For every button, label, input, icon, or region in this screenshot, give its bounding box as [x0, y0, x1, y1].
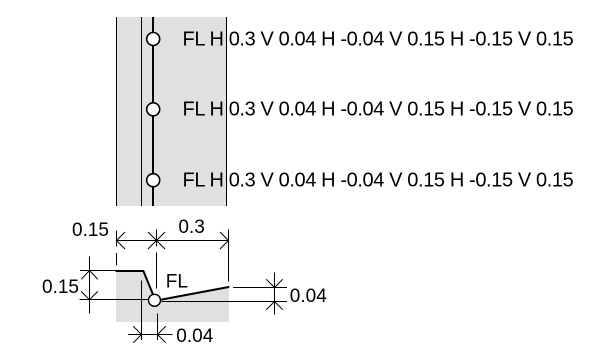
svg-text:0.3: 0.3: [178, 217, 204, 238]
svg-text:FL H 0.3 V 0.04 H -0.04 V 0.15: FL H 0.3 V 0.04 H -0.04 V 0.15 H -0.15 V…: [183, 169, 574, 191]
svg-text:0.04: 0.04: [290, 286, 327, 307]
svg-text:0.04: 0.04: [176, 326, 213, 347]
svg-text:FL: FL: [166, 272, 188, 293]
svg-text:0.15: 0.15: [42, 277, 79, 298]
svg-text:FL H 0.3 V 0.04 H -0.04 V 0.15: FL H 0.3 V 0.04 H -0.04 V 0.15 H -0.15 V…: [183, 29, 574, 51]
svg-text:FL H 0.3 V 0.04 H -0.04 V 0.15: FL H 0.3 V 0.04 H -0.04 V 0.15 H -0.15 V…: [183, 99, 574, 121]
svg-text:0.15: 0.15: [72, 220, 109, 241]
